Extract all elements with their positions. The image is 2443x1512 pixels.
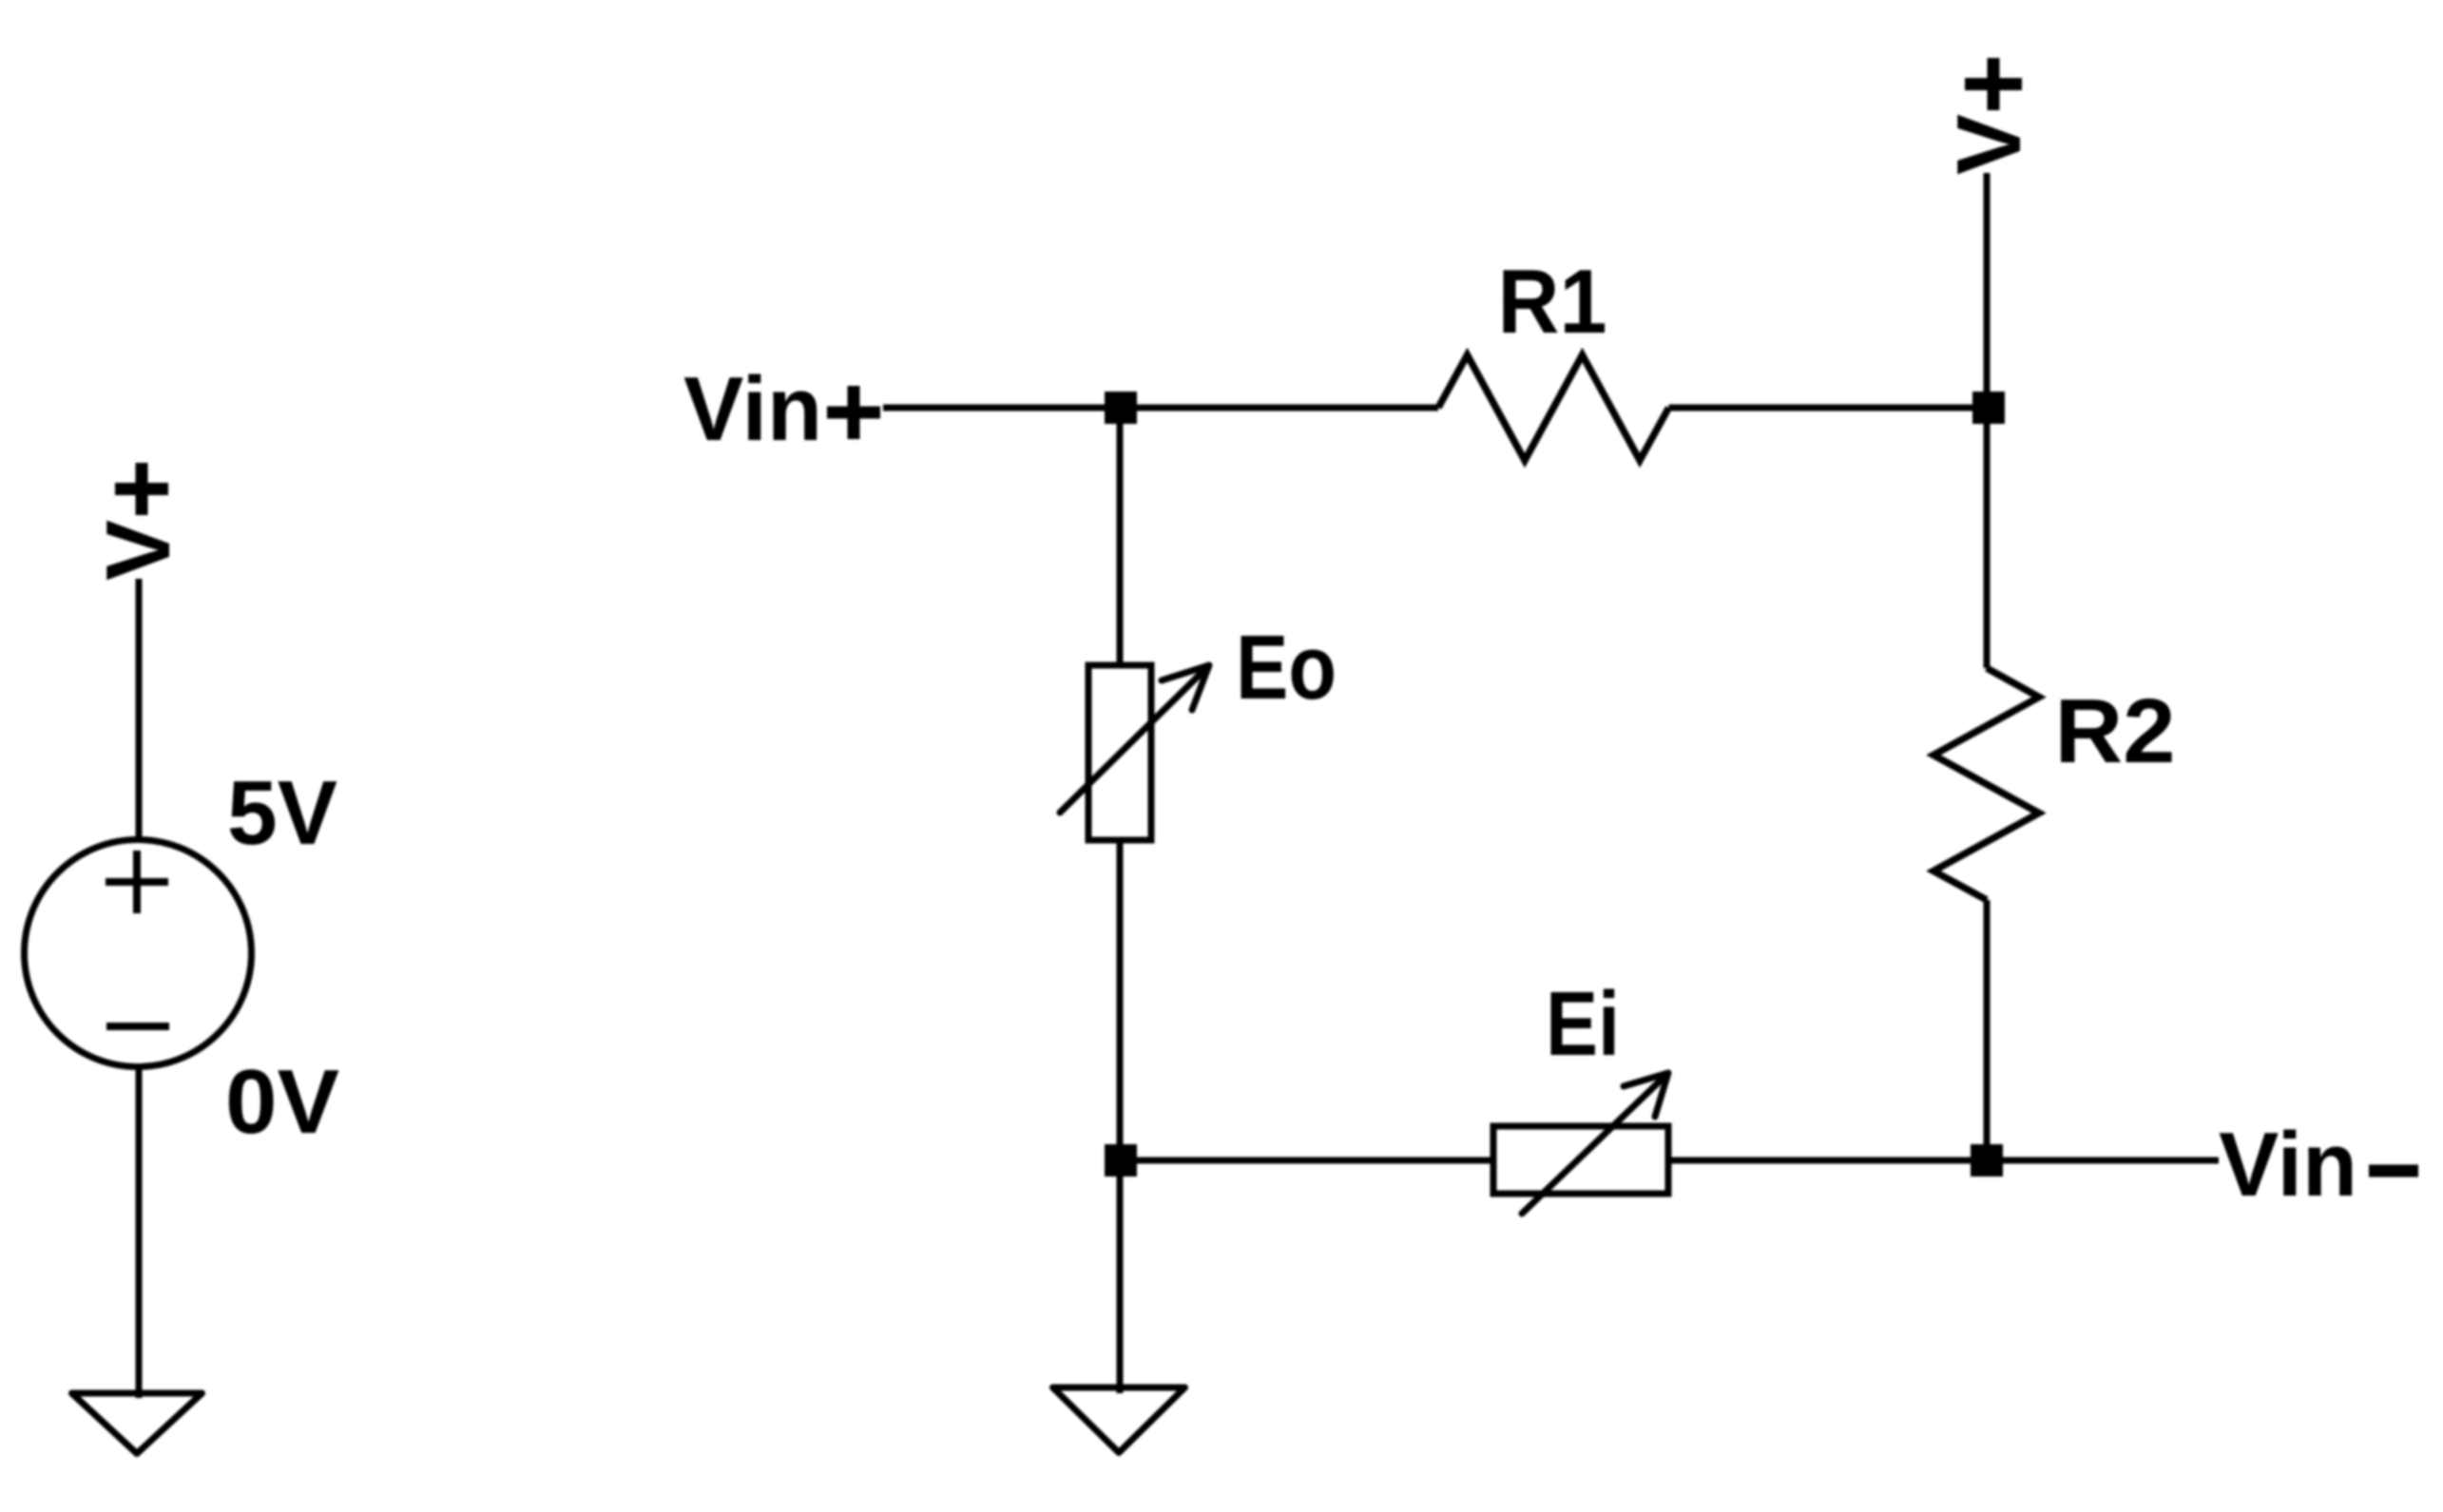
label Ei bbox=[1546, 973, 1620, 1075]
label Eo bbox=[1236, 617, 1337, 718]
label R1 bbox=[1498, 251, 1607, 353]
svg-text:R2: R2 bbox=[2055, 680, 2176, 782]
wire (node D to Ei) bbox=[1120, 1158, 1493, 1164]
ground (right) bbox=[1053, 1388, 1185, 1453]
wire (V+ down to node B) bbox=[1984, 173, 1991, 408]
svg-text:Ei: Ei bbox=[1546, 973, 1620, 1075]
wire (node C to Vin- label) bbox=[1987, 1158, 2219, 1164]
wire (node A down to Eo) bbox=[1117, 408, 1124, 665]
power label V+ (left supply) bbox=[87, 463, 189, 581]
svg-text:Vin: Vin bbox=[2219, 1114, 2357, 1215]
svg-text:Vin: Vin bbox=[683, 358, 822, 460]
svg-text:V: V bbox=[1938, 114, 2040, 175]
ground (left) bbox=[72, 1393, 202, 1454]
svg-text:Eo: Eo bbox=[1236, 617, 1337, 718]
voltage source plus terminal mark bbox=[106, 851, 168, 913]
value label 5V bbox=[227, 762, 337, 864]
svg-text:0V: 0V bbox=[225, 1051, 339, 1153]
wire (node B down to R2) bbox=[1984, 408, 1991, 668]
wire (R2 down to node C) bbox=[1984, 900, 1991, 1160]
svg-text:5V: 5V bbox=[227, 762, 337, 864]
net label Vin+ bbox=[683, 358, 880, 460]
net label Vin&#8722; bbox=[2219, 1114, 2418, 1215]
voltage source minus terminal mark bbox=[106, 1023, 169, 1030]
node B (junction R1 / V+ / R2) bbox=[1972, 392, 2005, 424]
wire (Ei to node C) bbox=[1668, 1158, 1987, 1164]
value label 0V bbox=[225, 1051, 339, 1153]
svg-text:V: V bbox=[87, 520, 189, 581]
voltage source V1 circle bbox=[25, 840, 252, 1067]
wire (Eo down to node D) bbox=[1117, 840, 1124, 1160]
node A (junction Vin+ / R1 / Eo) bbox=[1105, 392, 1137, 424]
variable resistor Ei (arrow) bbox=[1522, 1073, 1668, 1214]
wire (Vin+ to node A and on to R1) bbox=[883, 405, 1438, 411]
node C (junction R2 / Ei / Vin-) bbox=[1971, 1144, 2003, 1177]
node D (junction Eo / Ei / ground) bbox=[1105, 1144, 1137, 1177]
variable resistor Eo (body) bbox=[1088, 665, 1151, 840]
resistor R2 bbox=[1933, 668, 2039, 900]
wire (R1 to node B) bbox=[1669, 405, 1988, 411]
label R2 bbox=[2055, 680, 2176, 782]
resistor R1 bbox=[1438, 355, 1669, 461]
variable resistor Eo (arrow) bbox=[1060, 665, 1209, 813]
wire (node D down to ground) bbox=[1117, 1160, 1124, 1393]
wire (V+ to voltage source top) bbox=[136, 579, 143, 842]
wire (voltage source bottom to ground) bbox=[136, 1065, 143, 1398]
variable resistor Ei (body) bbox=[1493, 1126, 1668, 1194]
svg-text:R1: R1 bbox=[1498, 251, 1607, 353]
power label V+ (right supply) bbox=[1938, 58, 2040, 175]
